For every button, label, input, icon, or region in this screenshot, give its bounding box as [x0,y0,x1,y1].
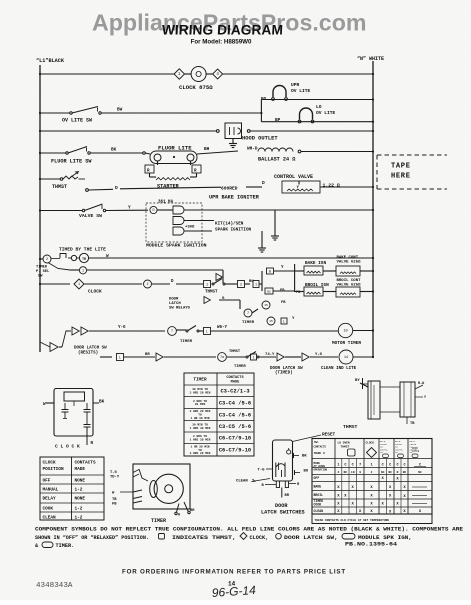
svg-text:FOR ORDERING INFORMATION REFER: FOR ORDERING INFORMATION REFER TO PARTS … [122,569,346,576]
svg-text:C3-C4 /5-6: C3-C4 /5-6 [219,412,251,418]
svg-text:1 HRS 30 MIN: 1 HRS 30 MIN [190,427,211,430]
svg-text:MOTOR TIMER: MOTOR TIMER [332,341,361,346]
svg-text:TD-Y: TD-Y [110,476,120,480]
svg-text:D: D [152,209,154,213]
svg-text:C3-C4 /5-6: C3-C4 /5-6 [219,400,251,406]
svg-text:CONTROL VALVE: CONTROL VALVE [274,174,313,180]
svg-text:3 HRS 20 MIN: 3 HRS 20 MIN [190,391,211,394]
svg-text:OFF: OFF [43,479,51,484]
svg-text:BW: BW [117,108,123,113]
svg-text:7: 7 [247,312,249,316]
svg-text:BR: BR [190,509,195,513]
svg-text:T-G: T-G [110,471,118,475]
svg-text:+30Ω: +30Ω [185,225,195,230]
svg-text:VALVE 625Ω: VALVE 625Ω [337,283,362,288]
svg-text:UPR BAKE IGNITER: UPR BAKE IGNITER [209,195,260,201]
svg-text:HOOD OUTLET: HOOD OUTLET [242,136,278,142]
svg-text:FLUOR LITE: FLUOR LITE [158,145,192,152]
svg-text:2: 2 [240,283,242,287]
svg-text:CLEAN: CLEAN [314,509,324,513]
svg-text:VALVE SW: VALVE SW [79,213,102,219]
svg-text:DOOR: DOOR [169,298,179,302]
svg-text:DOOR LATCH SW: DOOR LATCH SW [74,347,107,351]
svg-text:COOK: COOK [314,503,322,507]
svg-text:1: 1 [78,283,80,287]
svg-text:9: 9 [359,471,361,474]
svg-text:B2: B2 [267,290,271,293]
svg-text:THESE CONTACTS CLO CYCLE AT SE: THESE CONTACTS CLO CYCLE AT SET TEMPERAT… [315,519,390,522]
svg-text:TB: TB [410,422,415,426]
svg-text:C: C [396,464,398,468]
svg-text:N: N [397,471,399,474]
svg-text:CLEAN: CLEAN [43,516,57,521]
svg-text:SHOWN IN “OFF” OR “RELAXED” P: SHOWN IN “OFF” OR “RELAXED” POSITION. [35,535,149,541]
svg-text:LATCH: LATCH [169,302,181,306]
svg-text:7: 7 [171,330,173,334]
svg-text:BALLAST 24 Ω: BALLAST 24 Ω [258,157,295,163]
svg-text:FLUOR LITE SW: FLUOR LITE SW [51,159,92,165]
svg-text:BAKE: BAKE [314,485,322,489]
svg-text:BAKE IGN: BAKE IGN [305,261,326,266]
svg-text:DOOR LATCH SW,: DOOR LATCH SW, [284,535,338,541]
svg-text:2: 2 [338,471,340,474]
svg-text:TIMED: TIMED [36,266,48,270]
svg-text:HERE: HERE [391,173,411,181]
svg-text:1: 1 [252,356,254,360]
svg-text:D: D [115,185,118,191]
svg-text:L: L [283,320,285,324]
svg-text:SW.: SW. [314,441,320,444]
svg-text:P. SEL: P. SEL [36,270,50,274]
svg-text:FB: FB [112,503,117,507]
svg-text:BROIL CONT: BROIL CONT [337,279,362,283]
svg-text:MADE: MADE [231,381,240,385]
svg-text:CLOCK: CLOCK [366,442,375,445]
svg-text:MADE X: MADE X [314,452,325,455]
svg-text:INDICATES THMST,: INDICATES THMST, [172,535,236,541]
svg-text:LO: LO [316,104,322,110]
svg-text:W: W [43,402,46,407]
svg-text:THMST: THMST [341,446,350,449]
svg-text:BR: BR [145,353,150,357]
svg-text:C: C [382,464,384,468]
svg-text:CONTACTS: CONTACTS [75,461,96,466]
svg-text:WIRING DIAGRAM: WIRING DIAGRAM [162,23,284,38]
svg-text:1: 1 [370,464,372,468]
svg-text:COMPONENT SYMBOLS DO NOT REFLE: COMPONENT SYMBOLS DO NOT REFLECT TRUE CO… [35,527,463,533]
svg-text:CLOCK: CLOCK [88,289,102,295]
svg-text:T-G: T-G [258,469,266,473]
svg-text:1: 1 [255,283,257,287]
svg-text:NC: NC [381,471,385,474]
svg-text:361 HA: 361 HA [158,201,174,205]
svg-text:BK: BK [302,455,307,459]
svg-text:CLOCK 875Ω: CLOCK 875Ω [179,84,213,91]
svg-text:10: 10 [343,330,347,334]
svg-text:15: 15 [269,320,273,323]
svg-text:TIMER: TIMER [151,518,166,524]
svg-text:POSITION: POSITION [43,467,64,472]
svg-text:PB.NO.1395-64: PB.NO.1395-64 [345,540,398,547]
svg-text:Y-G: Y-G [315,353,323,357]
svg-text:Y-G: Y-G [118,326,126,330]
svg-text:TAPE: TAPE [391,163,411,171]
svg-text:BH: BH [204,147,210,152]
svg-text:2: 2 [371,471,373,474]
svg-text:NC: NC [418,471,422,474]
svg-text:C6-C7/9-10: C6-C7/9-10 [219,448,251,454]
svg-text:CLEAN: CLEAN [236,480,248,484]
svg-text:14: 14 [344,356,348,360]
svg-text:LN: LN [351,471,355,474]
svg-text:W6-Y: W6-Y [217,326,228,330]
svg-text:L: L [206,330,208,334]
svg-text:SPARK IGNITION: SPARK IGNITION [215,228,252,233]
svg-text:CONTACTS: CONTACTS [226,376,244,380]
svg-text:BK: BK [111,148,117,153]
svg-text:1: 1 [206,283,208,287]
svg-text:CLOCK,: CLOCK, [250,535,269,541]
svg-text:C6-C7/9-10: C6-C7/9-10 [219,436,251,442]
svg-text:THMST: THMST [343,424,358,430]
svg-text:THMST: THMST [205,291,218,295]
svg-text:VALVE 625Ω: VALVE 625Ω [337,260,362,265]
svg-text:BU: BU [304,470,309,474]
svg-text:30 MIN: 30 MIN [195,403,206,406]
svg-text:CONTACTS: CONTACTS [314,446,327,449]
svg-text:BROIL: BROIL [314,493,324,497]
svg-text:“L1”BLACK: “L1”BLACK [36,58,65,64]
svg-text:TIMER: TIMER [193,378,207,383]
svg-text:1: 1 [82,270,84,274]
svg-text:C: C [419,464,421,468]
svg-text:3 HRS 20 MIN: 3 HRS 20 MIN [190,452,211,455]
svg-text:TIMER: TIMER [234,365,246,369]
svg-text:2: 2 [46,258,48,262]
svg-text:TB: TB [112,498,117,502]
svg-text:BY: BY [355,379,360,383]
svg-text:4348343A: 4348343A [36,582,73,590]
svg-text:BK: BK [99,400,105,405]
svg-text:D: D [262,180,265,186]
svg-text:RESET: RESET [322,433,336,438]
svg-text:7: 7 [359,464,361,468]
svg-text:L: L [119,356,121,360]
svg-text:BAKE CONT: BAKE CONT [337,256,359,260]
svg-text:2: 2 [146,283,148,287]
svg-text:74-Y: 74-Y [265,353,275,357]
svg-text:NONE: NONE [75,479,86,484]
svg-text:C3-C5 /5-6: C3-C5 /5-6 [219,424,251,430]
svg-text:OFF: OFF [314,476,320,480]
svg-text:C L O C K: C L O C K [55,444,80,450]
svg-text:C: C [403,464,405,468]
svg-text:NONE: NONE [75,497,86,502]
svg-text:MANUAL: MANUAL [43,488,59,493]
svg-text:TIMER: TIMER [242,321,255,325]
svg-text:LO OVEN: LO OVEN [338,442,350,445]
svg-text:C: C [352,464,354,468]
svg-text:TIMER: TIMER [180,340,193,344]
svg-text:B: B [269,270,271,274]
svg-text:DOOR: DOOR [275,503,288,509]
svg-text:1-2: 1-2 [75,516,83,521]
svg-text:“N” WHITE: “N” WHITE [357,56,384,62]
svg-text:W: W [106,254,109,259]
svg-text:For Model: H8859W0: For Model: H8859W0 [191,39,252,46]
svg-text:15: 15 [264,304,268,307]
svg-text:600RED: 600RED [221,186,238,192]
svg-text:OV LITE: OV LITE [291,88,311,94]
svg-text:WH-D: WH-D [247,147,258,152]
svg-text:SW: SW [38,275,43,279]
svg-text:1-2: 1-2 [75,488,83,493]
svg-text:NC: NC [344,471,348,474]
svg-text:OPERATION: OPERATION [314,469,328,472]
svg-text:THMST: THMST [229,350,241,354]
svg-text:BROIL IGN: BROIL IGN [305,283,329,288]
svg-text:SW RELAYS: SW RELAYS [169,307,191,311]
svg-text:TIMER.: TIMER. [56,543,75,549]
svg-text:LATCH: LATCH [412,450,420,453]
svg-text:OV LITE: OV LITE [316,110,336,116]
svg-text:C: C [389,464,391,468]
svg-text:MODULE SPARK IGNITION: MODULE SPARK IGNITION [146,243,207,249]
svg-text:Y: Y [128,206,131,211]
svg-text:1 HRS 30 MIN: 1 HRS 30 MIN [190,438,211,441]
svg-text:FB: FB [281,301,286,305]
svg-text:TIMED BY THE LITE: TIMED BY THE LITE [59,247,106,253]
svg-text:MADE: MADE [75,467,86,472]
svg-text:1.22 Ω: 1.22 Ω [323,183,340,189]
svg-text:THMST: THMST [52,184,67,190]
svg-text:DELAY: DELAY [43,497,57,502]
svg-text:C3-C2/1-3: C3-C2/1-3 [220,389,249,395]
svg-text:1 HR 30 MIN: 1 HR 30 MIN [190,417,209,420]
svg-text:NC: NC [403,471,407,474]
svg-text:(RESITS): (RESITS) [78,351,98,356]
svg-text:COOK: COOK [43,507,54,512]
svg-text:(TIMED): (TIMED) [275,371,293,376]
svg-text:CLEAN IND LITE: CLEAN IND LITE [321,367,357,371]
svg-text:DOOR LATCH SW: DOOR LATCH SW [270,367,303,371]
svg-text:BR: BR [285,494,290,498]
svg-text:CLOCK: CLOCK [43,461,57,466]
svg-text:R-W: R-W [418,382,425,386]
svg-text:1-2: 1-2 [75,507,83,512]
svg-text:LATCH SWITCHES: LATCH SWITCHES [261,510,305,516]
svg-text:C: C [344,464,346,468]
svg-text:KIT(14)/SEN: KIT(14)/SEN [215,222,244,227]
svg-text:1: 1 [337,464,339,468]
svg-text:TM: TM [82,257,86,261]
svg-text:OV LITE SW: OV LITE SW [62,118,92,124]
svg-text:NC: NC [388,471,392,474]
svg-text:UPR: UPR [291,82,300,88]
svg-text:7a: 7a [220,355,224,359]
